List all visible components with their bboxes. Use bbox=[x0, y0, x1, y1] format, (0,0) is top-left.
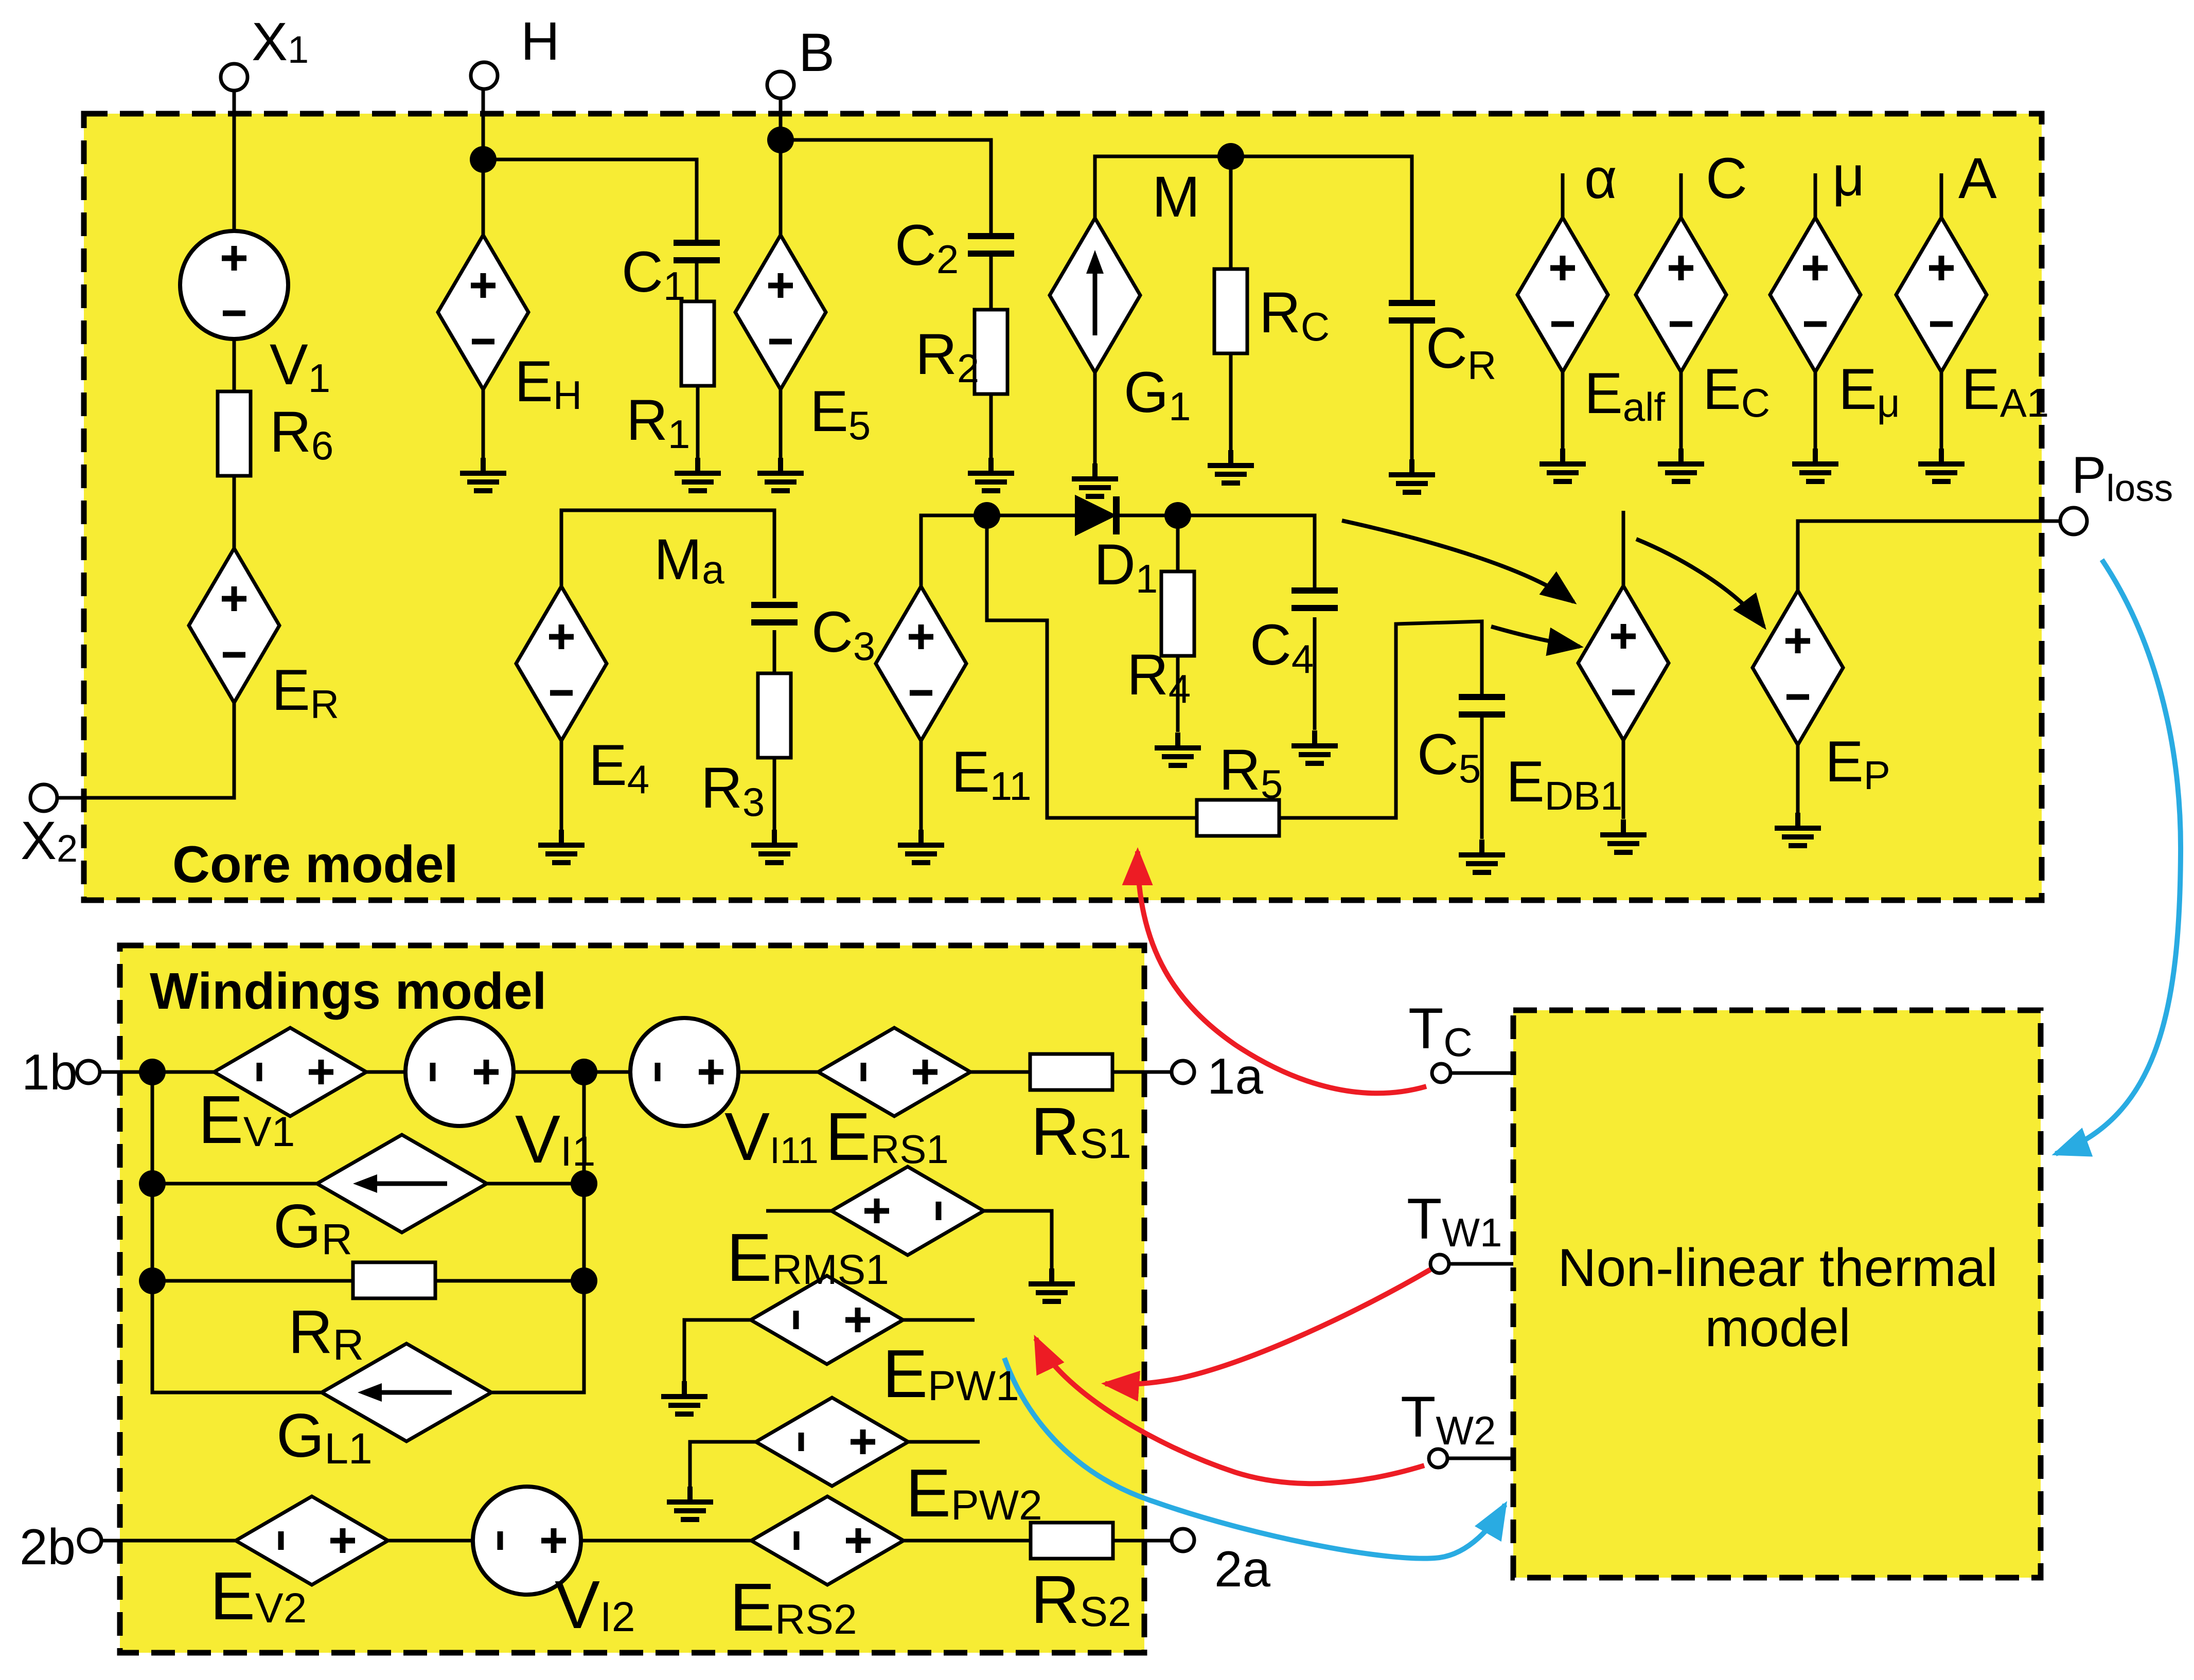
wire G1 to ground bbox=[1093, 366, 1097, 478]
Core model box bbox=[84, 114, 2042, 900]
wire row RR left bbox=[152, 1279, 353, 1283]
wire 1b to EV1 bbox=[100, 1070, 215, 1074]
svg-text:TC: TC bbox=[1408, 996, 1473, 1065]
wire stub C bbox=[1679, 173, 1683, 219]
resistor RS1 bbox=[1030, 1054, 1112, 1090]
svg-text:Core model: Core model bbox=[172, 836, 458, 893]
junction node D1 anode bbox=[974, 502, 1000, 529]
wire node to R5 bbox=[987, 515, 1197, 818]
wire VI1 to VI11 bbox=[514, 1070, 631, 1074]
red arrow TW1 to EPW1 bbox=[1105, 1270, 1430, 1384]
wire EPW1 right bbox=[902, 1318, 975, 1322]
wire EP to ground bbox=[1796, 744, 1800, 813]
ground under E11 bbox=[898, 830, 944, 863]
svg-text:Windings model: Windings model bbox=[150, 962, 546, 1020]
wire Ploss to EP bbox=[1798, 521, 2062, 592]
junction GR left bbox=[139, 1170, 166, 1197]
wire B to E5 bbox=[779, 98, 783, 236]
resistor RS2 bbox=[1031, 1523, 1113, 1559]
wire R5 to C5 bbox=[1279, 621, 1482, 818]
source Ealf bbox=[1517, 218, 1608, 372]
wire R2 to ground bbox=[989, 394, 993, 471]
svg-text:A: A bbox=[1958, 146, 1997, 210]
wire E11 to diode node bbox=[921, 515, 988, 587]
wire ERMS1 right to ground bbox=[983, 1211, 1052, 1283]
source E5 bbox=[735, 235, 826, 389]
wire EV2 to VI2 bbox=[388, 1539, 473, 1543]
ground under Ealf bbox=[1540, 449, 1586, 481]
capacitor C5 bbox=[1459, 697, 1505, 714]
wire R1 to ground bbox=[696, 385, 700, 471]
wire ERMS1 left bbox=[766, 1209, 833, 1213]
wire stub A bbox=[1940, 173, 1943, 219]
wire RS1 to 1a bbox=[1112, 1070, 1172, 1074]
WINDINGS WIRES bbox=[100, 1072, 1513, 1541]
ground under R3 bbox=[751, 830, 798, 863]
ground under RC bbox=[1208, 450, 1254, 483]
wire C5 to ground bbox=[1480, 713, 1484, 839]
source G1 bbox=[1050, 218, 1140, 372]
svg-text:B: B bbox=[799, 23, 835, 83]
red arrow TC to core bbox=[1138, 851, 1426, 1093]
wire C3 to R3 bbox=[773, 630, 776, 676]
wire row RR right bbox=[435, 1279, 584, 1283]
source E11 bbox=[876, 586, 966, 741]
terminal X2 bbox=[30, 784, 57, 811]
wire EPW1 left to ground bbox=[684, 1320, 752, 1396]
terminal 2b bbox=[79, 1529, 101, 1552]
wire RC to ground bbox=[1229, 353, 1233, 464]
wire left rail bbox=[152, 1072, 323, 1392]
capacitor C4 bbox=[1291, 591, 1338, 608]
svg-text:TW1: TW1 bbox=[1407, 1187, 1502, 1255]
ground under R4 bbox=[1155, 732, 1201, 765]
wire EV1 to VI1 bbox=[365, 1070, 406, 1074]
resistor RC bbox=[1214, 269, 1247, 353]
black arrow to EDB1 left bbox=[1491, 627, 1580, 647]
svg-text:X2: X2 bbox=[21, 811, 78, 871]
resistor RR bbox=[353, 1262, 435, 1298]
junction RR right bbox=[571, 1267, 597, 1294]
source ER bbox=[189, 548, 279, 703]
ground under C4 bbox=[1291, 730, 1338, 763]
junction 1b rail bbox=[139, 1059, 166, 1085]
junction right rail top bbox=[571, 1059, 597, 1085]
wire diode anode bbox=[999, 514, 1076, 517]
source E4 bbox=[516, 586, 607, 741]
source VI11 bbox=[630, 1018, 738, 1126]
junction node D1 cathode bbox=[1164, 502, 1191, 529]
black arrow to EP bbox=[1636, 539, 1764, 627]
svg-text:C: C bbox=[1706, 146, 1747, 210]
wire VI11 to ERS1 bbox=[738, 1070, 819, 1074]
capacitor CR bbox=[1389, 303, 1435, 320]
ground under EDB1 bbox=[1600, 819, 1647, 852]
wire EPW2 right bbox=[907, 1440, 980, 1444]
wire stub alpha bbox=[1561, 173, 1565, 219]
wire node to R4 bbox=[1176, 515, 1180, 571]
wire stub EDB1 bbox=[1622, 511, 1625, 587]
source ERS1 bbox=[818, 1028, 970, 1116]
junction RR left bbox=[139, 1267, 166, 1294]
wire H to EH bbox=[482, 89, 485, 236]
resistor R6 bbox=[218, 391, 251, 476]
svg-text:model: model bbox=[1705, 1298, 1850, 1358]
ground under EC bbox=[1658, 449, 1704, 481]
ground under C5 bbox=[1459, 839, 1505, 872]
resistor R5 bbox=[1197, 800, 1279, 836]
wire node M to RC bbox=[1229, 156, 1233, 269]
svg-text:μ: μ bbox=[1832, 145, 1865, 208]
terminal TW1 bbox=[1430, 1255, 1449, 1273]
wire EPW2 left to ground bbox=[690, 1442, 757, 1502]
svg-text:M: M bbox=[1152, 165, 1200, 229]
wire TW2 bbox=[1447, 1457, 1513, 1460]
wire row GR right bbox=[486, 1182, 584, 1186]
svg-text:Ploss: Ploss bbox=[2072, 446, 2173, 509]
terminal TW2 bbox=[1429, 1449, 1447, 1468]
ground under R1 bbox=[675, 458, 721, 491]
wire EDB1 to ground bbox=[1622, 739, 1625, 819]
wire ERS1 to RS1 bbox=[969, 1070, 1030, 1074]
wire R4 to ground bbox=[1176, 656, 1180, 732]
wire row GR left bbox=[152, 1182, 318, 1186]
wire EA1 to ground bbox=[1940, 371, 1943, 462]
junction GR right bbox=[571, 1170, 597, 1197]
svg-text:2b: 2b bbox=[20, 1518, 76, 1575]
source EA1 bbox=[1896, 218, 1987, 372]
wire C2 to R2 bbox=[989, 254, 993, 310]
svg-text:2a: 2a bbox=[1214, 1541, 1271, 1597]
svg-text:α: α bbox=[1584, 147, 1617, 210]
wire node Ma bbox=[561, 510, 774, 598]
wire Ealf to ground bbox=[1561, 371, 1565, 462]
wire EC to ground bbox=[1679, 371, 1683, 462]
wire R3 to ground bbox=[773, 757, 776, 845]
terminal Ploss bbox=[2060, 508, 2087, 534]
svg-text:X1: X1 bbox=[252, 12, 309, 72]
source ERS2 bbox=[751, 1496, 904, 1585]
terminal B bbox=[767, 72, 794, 98]
resistor R2 bbox=[975, 310, 1007, 394]
source EDB1 bbox=[1578, 586, 1669, 740]
wire X1 to V1 bbox=[233, 91, 236, 231]
source EC bbox=[1636, 218, 1726, 372]
wire VI2 to ERS2 bbox=[581, 1539, 752, 1543]
wire G1 to node M to CR bbox=[1095, 156, 1412, 300]
ground ERMS1 bbox=[1029, 1268, 1075, 1301]
CORE WIRES bbox=[55, 89, 2062, 845]
wire TC bbox=[1450, 1071, 1513, 1075]
source VI1 bbox=[405, 1018, 514, 1126]
blue arrow Ploss to thermal bbox=[2056, 560, 2181, 1154]
wire EH to ground bbox=[482, 388, 485, 471]
terminal H bbox=[471, 62, 498, 89]
wire right rail bbox=[490, 1072, 584, 1392]
wire CR to ground bbox=[1410, 324, 1414, 474]
Windings model box bbox=[120, 945, 1144, 1653]
source EP bbox=[1753, 591, 1843, 745]
terminal 1a bbox=[1172, 1061, 1194, 1083]
terminal X1 bbox=[221, 64, 247, 91]
wire R6 to ER bbox=[233, 475, 236, 549]
diode D1 bbox=[1076, 496, 1120, 534]
wire diode cathode to node bbox=[1120, 514, 1178, 517]
source VI2 bbox=[473, 1487, 581, 1595]
wire C4 to ground bbox=[1313, 617, 1317, 730]
ground under G1 bbox=[1072, 463, 1118, 496]
ground under EH bbox=[460, 458, 506, 491]
wire ER to X2 bbox=[55, 702, 234, 798]
source GR bbox=[317, 1135, 487, 1232]
wire TW1 bbox=[1449, 1262, 1513, 1266]
source EH bbox=[438, 235, 528, 389]
svg-text:Non-linear thermal: Non-linear thermal bbox=[1558, 1238, 1997, 1298]
wire C1 to R1 bbox=[695, 260, 699, 302]
capacitor C3 bbox=[751, 605, 798, 622]
source ERMS1 bbox=[831, 1167, 984, 1255]
ground under Emu bbox=[1792, 449, 1838, 481]
ground EPW2 bbox=[667, 1487, 713, 1520]
ground under CR bbox=[1389, 459, 1435, 492]
wire stub mu bbox=[1814, 173, 1817, 219]
red arrow TW2 to EPW1 bbox=[1036, 1338, 1424, 1484]
svg-text:1a: 1a bbox=[1207, 1048, 1264, 1104]
wire node to C4 bbox=[1178, 515, 1315, 592]
source EPW1 bbox=[751, 1276, 903, 1364]
resistor R4 bbox=[1161, 571, 1194, 656]
ground under R2 bbox=[968, 458, 1014, 491]
ground under EP bbox=[1775, 813, 1821, 846]
resistor R1 bbox=[681, 301, 714, 386]
wire H node to C1 bbox=[483, 159, 697, 244]
wire RS2 to 2a bbox=[1113, 1539, 1172, 1543]
wire 2b to EV2 bbox=[101, 1539, 237, 1543]
svg-text:1b: 1b bbox=[22, 1044, 78, 1100]
junction node B bbox=[767, 127, 794, 153]
junction node H bbox=[470, 146, 497, 173]
capacitor C2 bbox=[968, 236, 1014, 254]
terminal TC bbox=[1432, 1064, 1450, 1082]
ground under E4 bbox=[538, 830, 585, 863]
terminal 2a bbox=[1172, 1529, 1194, 1551]
capacitor C1 bbox=[674, 243, 720, 260]
blue arrow EPW1 to thermal bbox=[1004, 1358, 1505, 1559]
svg-text:H: H bbox=[521, 11, 560, 72]
ground under E5 bbox=[757, 458, 804, 491]
source V1 bbox=[180, 231, 288, 339]
ground under EA1 bbox=[1918, 449, 1965, 481]
Non-linear thermal model box bbox=[1513, 1010, 2041, 1578]
svg-text:TW2: TW2 bbox=[1401, 1385, 1496, 1453]
wire V1 to R6 bbox=[233, 339, 236, 392]
wire ERS2 to RS2 bbox=[903, 1539, 1031, 1543]
terminal 1b bbox=[77, 1061, 100, 1083]
junction node M bbox=[1217, 143, 1244, 170]
source GL1 bbox=[322, 1344, 491, 1441]
source EPW2 bbox=[756, 1398, 908, 1486]
ground EPW1 bbox=[661, 1381, 707, 1414]
wire Emu to ground bbox=[1814, 371, 1817, 462]
resistor R3 bbox=[758, 673, 791, 758]
wire E11 to ground bbox=[919, 740, 923, 845]
wire E5 to ground bbox=[779, 388, 783, 471]
wire B node to C2 bbox=[781, 140, 991, 237]
source Emu bbox=[1770, 218, 1861, 372]
wire E4 to ground bbox=[560, 740, 563, 845]
black arrow to EDB1 bbox=[1342, 521, 1573, 602]
source EV1 bbox=[214, 1028, 366, 1116]
source EV2 bbox=[236, 1496, 388, 1585]
